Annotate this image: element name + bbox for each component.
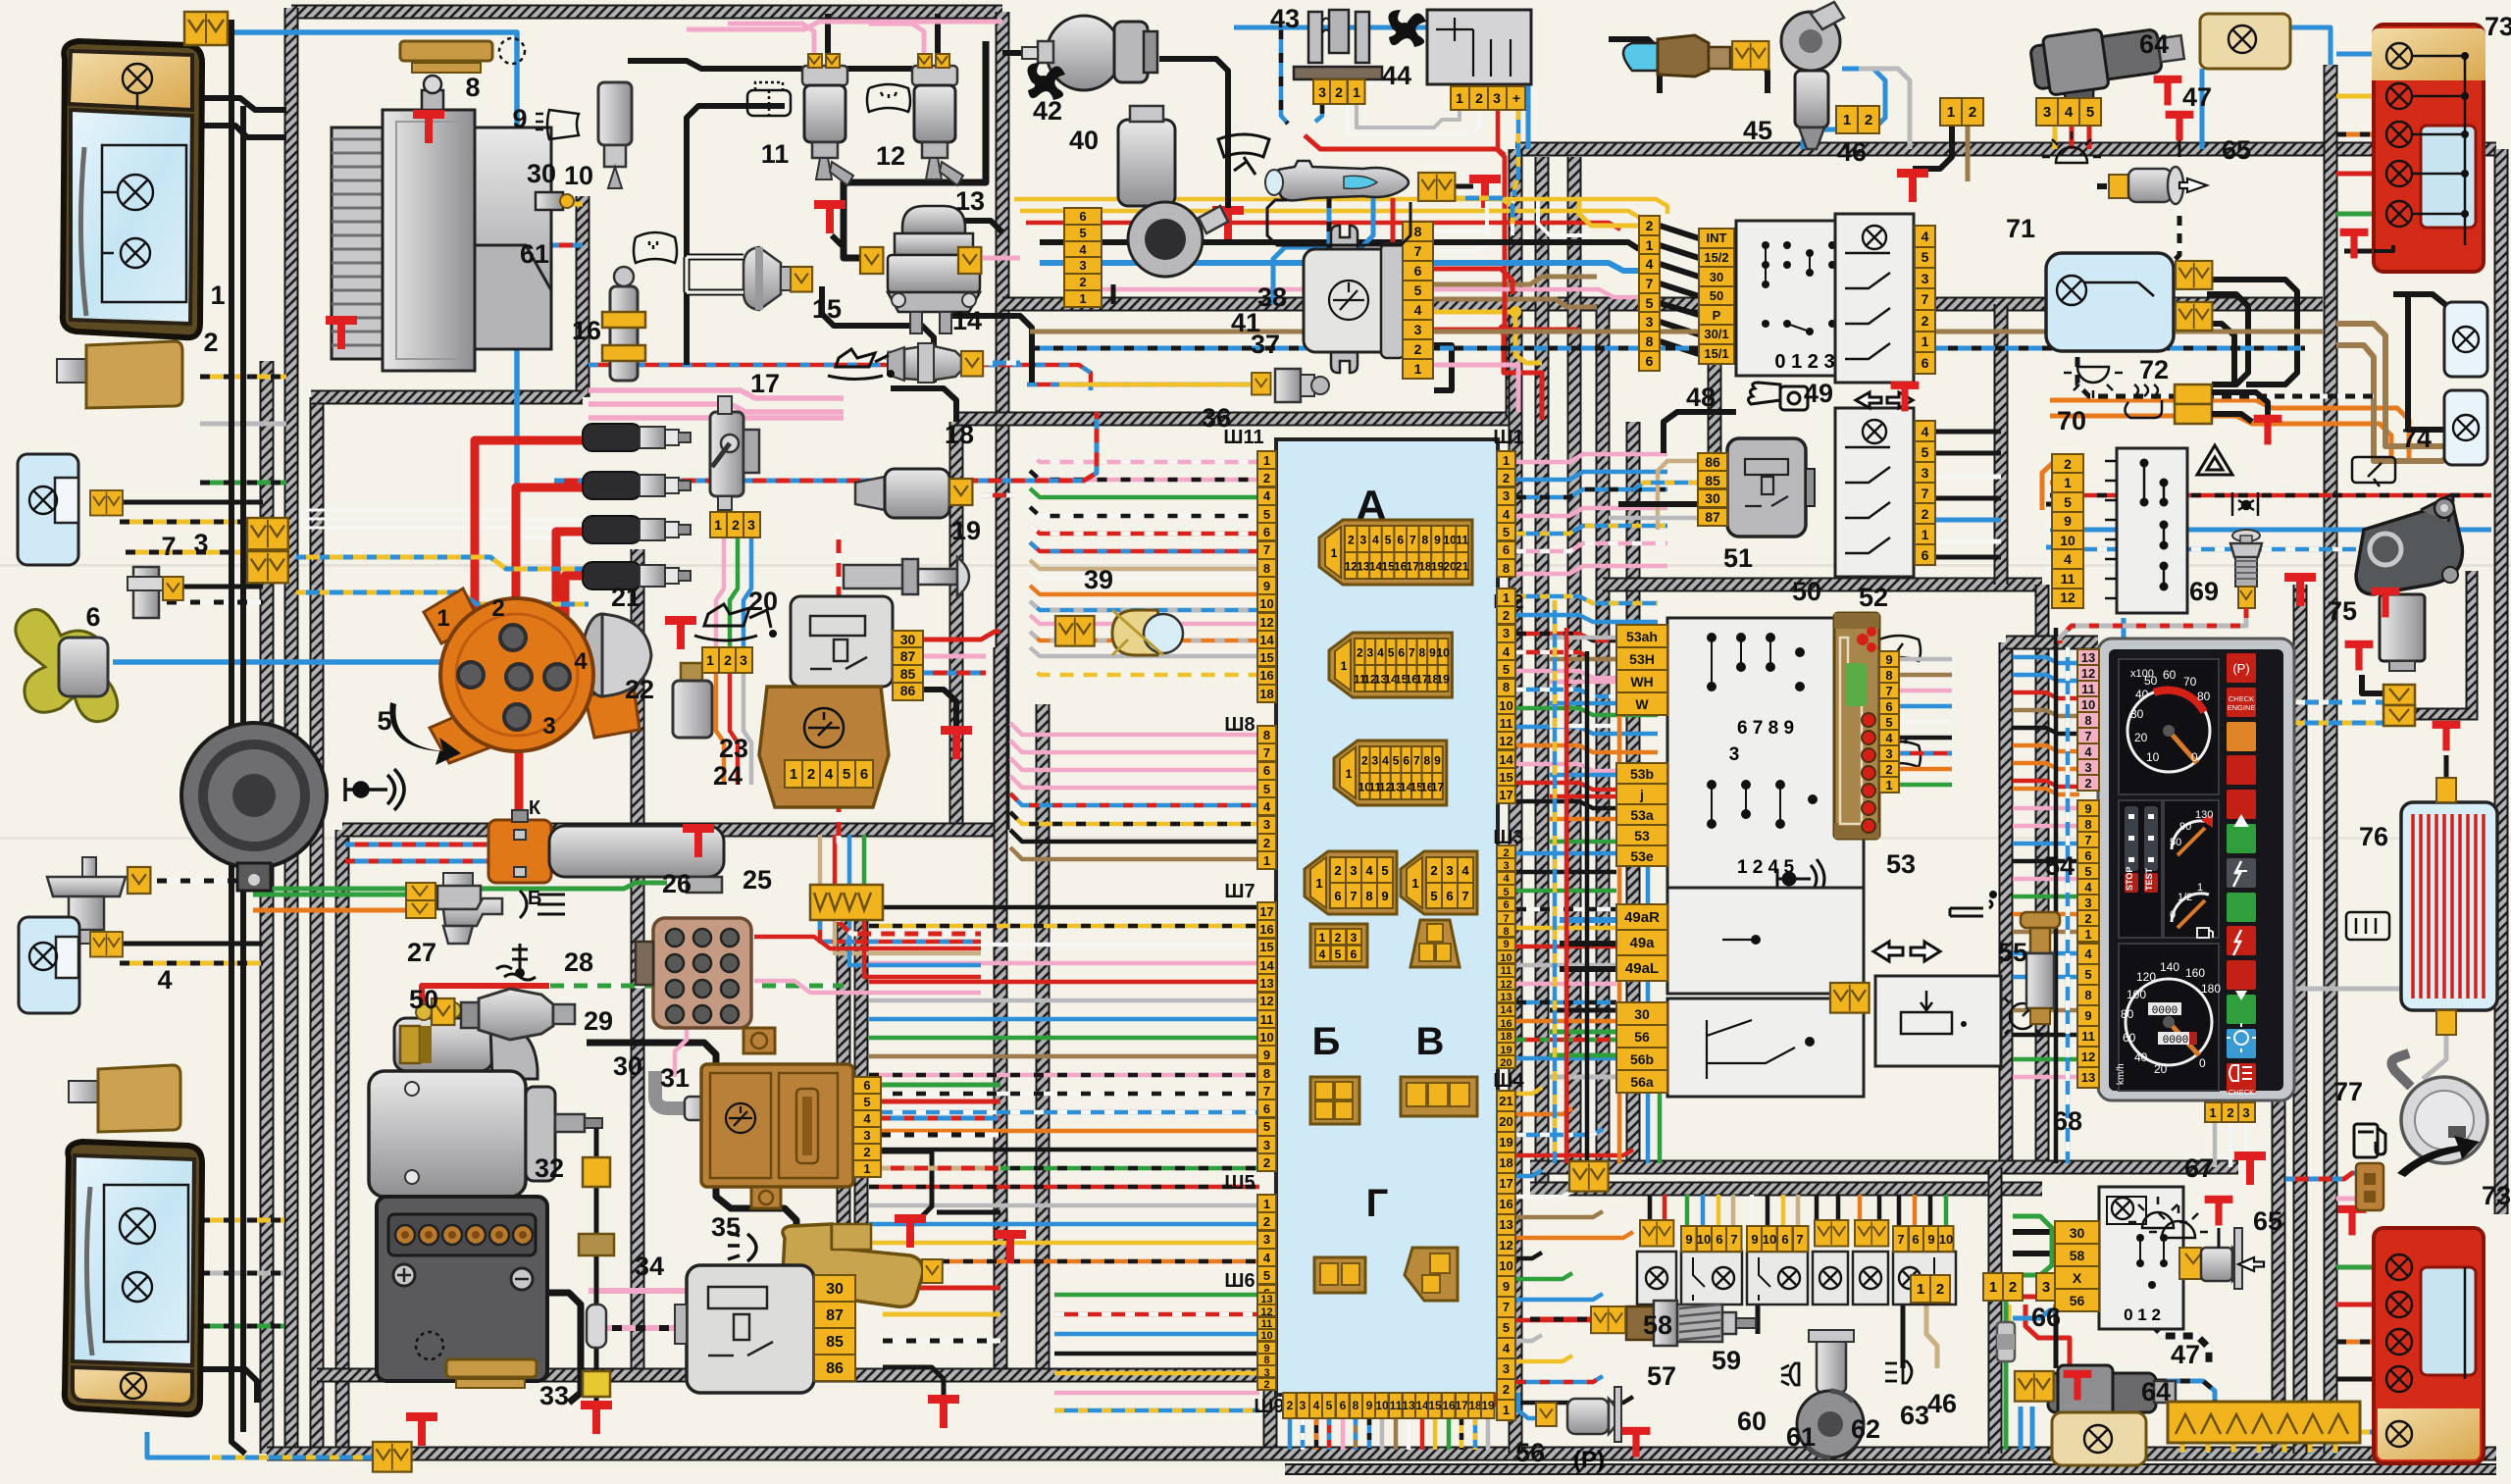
wire — [200, 1218, 284, 1223]
reservoir icon — [747, 82, 791, 116]
wire — [200, 126, 286, 137]
wire — [1936, 451, 2001, 456]
wire — [1913, 126, 1952, 169]
wire — [2013, 789, 2079, 794]
svg-text:4: 4 — [1922, 424, 1929, 439]
connector — [90, 490, 123, 516]
switch 60 — [1747, 1252, 1808, 1305]
wire harness — [956, 412, 1512, 427]
svg-text:Ш9: Ш9 — [1254, 1396, 1284, 1417]
high-tension lead — [556, 532, 583, 674]
wire — [1731, 1195, 1736, 1233]
svg-text:12: 12 — [2081, 1049, 2095, 1064]
svg-text:60: 60 — [2163, 668, 2177, 682]
brake fluid reservoir 35 — [783, 1224, 923, 1306]
wire — [2336, 132, 2374, 137]
ECU connector small — [1310, 924, 1367, 967]
horn 5 — [181, 723, 327, 891]
wire — [728, 24, 814, 54]
ECU connector Г2 — [1405, 1248, 1458, 1301]
brake switch 18 — [855, 469, 949, 518]
wire — [1560, 917, 1616, 923]
svg-text:7: 7 — [1730, 1232, 1737, 1247]
svg-text:4: 4 — [1503, 1341, 1511, 1356]
svg-text:3: 3 — [2084, 896, 2091, 910]
connector — [958, 247, 981, 274]
svg-text:17: 17 — [1259, 904, 1273, 919]
svg-text:2: 2 — [1263, 836, 1270, 850]
ignition coil 26 — [488, 810, 724, 893]
connector 72 — [2175, 384, 2212, 424]
svg-text:3: 3 — [1300, 1399, 1307, 1412]
wire — [1516, 1170, 1542, 1176]
wire — [2013, 877, 2079, 882]
wire — [1054, 1408, 1259, 1413]
svg-text:2: 2 — [1503, 471, 1510, 486]
ground — [2433, 721, 2461, 751]
lamp — [2386, 161, 2412, 186]
sensor 30 — [655, 1071, 714, 1120]
svg-text:52: 52 — [1859, 583, 1888, 612]
svg-text:14: 14 — [1415, 1399, 1429, 1412]
svg-text:2: 2 — [203, 328, 218, 357]
ground — [814, 200, 846, 233]
wire — [1030, 488, 1259, 497]
lamp — [2386, 43, 2412, 69]
wire — [2336, 345, 2452, 461]
svg-text:28: 28 — [564, 947, 593, 977]
svg-text:7: 7 — [1414, 243, 1422, 259]
turn switch block — [1667, 888, 1864, 994]
wire harness — [1603, 578, 2042, 592]
wire — [687, 106, 785, 365]
svg-text:10: 10 — [1260, 1330, 1272, 1342]
wire — [1433, 224, 1515, 231]
windshield icon — [867, 84, 910, 112]
wire — [2004, 1361, 2009, 1450]
svg-text:10: 10 — [1499, 698, 1512, 713]
wire — [869, 1166, 1259, 1171]
svg-text:7: 7 — [1409, 646, 1415, 660]
wire — [1460, 1418, 1464, 1450]
wire — [1002, 50, 1022, 56]
starter motor 29 — [369, 1002, 602, 1197]
battery feed wire — [231, 20, 245, 1454]
svg-text:9: 9 — [1429, 646, 1436, 660]
svg-text:30: 30 — [2130, 707, 2144, 721]
wire — [1530, 1317, 1594, 1322]
wire — [1936, 518, 2001, 523]
wire — [1315, 104, 1322, 122]
wire — [1550, 773, 1616, 778]
lamp — [2084, 1425, 2112, 1453]
svg-text:7: 7 — [1263, 745, 1270, 760]
wire harness — [631, 549, 645, 1375]
svg-text:16: 16 — [1442, 1399, 1456, 1412]
connector pins — [1497, 451, 1515, 577]
turn arrows icon — [1856, 392, 1913, 408]
connector pins — [1403, 222, 1433, 379]
svg-text:7: 7 — [1409, 534, 1416, 547]
connector pins — [1747, 1226, 1809, 1252]
wire — [1936, 539, 2001, 544]
wire harness — [2293, 585, 2308, 1454]
connector pins — [2055, 1221, 2099, 1311]
ECU connector Г1 — [1314, 1257, 1365, 1293]
rear window defogger 76 — [2401, 802, 2497, 1010]
oil level sensor 15 — [687, 247, 791, 310]
svg-text:76: 76 — [2359, 822, 2388, 851]
svg-text:1: 1 — [436, 605, 449, 632]
connector pins — [893, 631, 923, 700]
wire — [1516, 907, 1616, 912]
svg-text:2: 2 — [1503, 1382, 1510, 1397]
svg-text:4: 4 — [1365, 863, 1373, 878]
temperature icon — [496, 944, 536, 980]
front fog icon — [1781, 1363, 1799, 1385]
wire harness — [1708, 304, 1722, 453]
wire — [869, 998, 1259, 1003]
svg-text:74: 74 — [2402, 424, 2432, 453]
wire harness — [335, 830, 350, 1454]
wire — [1030, 346, 2305, 351]
wire — [2308, 1443, 2313, 1454]
lamp — [121, 1373, 146, 1399]
wire — [891, 388, 956, 422]
svg-text:71: 71 — [2006, 214, 2035, 243]
wire — [2013, 1272, 2055, 1278]
wire — [2212, 414, 2252, 422]
svg-text:4: 4 — [1503, 507, 1511, 522]
sensor 45 — [1623, 35, 1730, 77]
wire — [1618, 501, 1698, 507]
svg-text:(P): (P) — [2232, 661, 2249, 676]
svg-text:18: 18 — [945, 420, 974, 449]
washer valve 16 — [602, 267, 645, 381]
key icon — [1748, 383, 1808, 410]
svg-text:4: 4 — [2084, 880, 2092, 895]
wire — [1712, 59, 1768, 93]
wire — [1486, 1418, 1491, 1450]
svg-text:3: 3 — [1503, 488, 1510, 503]
wire — [1514, 110, 1518, 196]
wire — [1054, 1312, 1259, 1317]
wire — [304, 519, 589, 529]
washer pump 11 — [802, 54, 853, 185]
svg-text:58: 58 — [1643, 1310, 1672, 1340]
wire — [1516, 1253, 1542, 1258]
wire — [1327, 1418, 1332, 1450]
wire — [1550, 680, 1616, 685]
wire — [2013, 763, 2079, 769]
wire — [1054, 1391, 1259, 1396]
svg-text:34: 34 — [635, 1252, 664, 1281]
wire — [1030, 507, 1259, 516]
ground — [895, 1214, 926, 1248]
connector — [922, 1259, 943, 1283]
wire — [1900, 720, 1952, 725]
svg-text:5: 5 — [1503, 1320, 1510, 1335]
svg-text:1: 1 — [1922, 527, 1929, 542]
wire — [862, 835, 867, 885]
wire — [869, 1036, 1259, 1041]
wire — [675, 1006, 687, 1077]
ground — [2340, 229, 2369, 259]
svg-text:120: 120 — [2136, 970, 2156, 984]
connector pins — [702, 647, 752, 673]
svg-text:1: 1 — [1263, 853, 1270, 868]
turn arrows icon — [1873, 942, 1940, 961]
high-tension lead — [475, 440, 583, 671]
svg-text:W: W — [1635, 696, 1649, 712]
fuse 66 — [1997, 1322, 2015, 1361]
wire — [1516, 851, 1616, 856]
svg-text:4: 4 — [2065, 104, 2074, 121]
wire — [1632, 483, 1698, 490]
connector — [90, 932, 123, 957]
svg-text:10: 10 — [1259, 596, 1273, 611]
svg-text:2: 2 — [1263, 1155, 1270, 1170]
svg-text:1/2: 1/2 — [2178, 892, 2192, 903]
svg-text:13: 13 — [1259, 976, 1273, 991]
high-tension lead — [520, 576, 583, 717]
wire — [1111, 284, 1116, 304]
svg-text:5: 5 — [1263, 782, 1270, 796]
lamp — [118, 175, 153, 210]
svg-text:3: 3 — [1350, 863, 1357, 878]
svg-text:6: 6 — [1263, 525, 1270, 539]
wire — [1516, 1038, 1616, 1043]
wire — [1357, 104, 1460, 128]
wire — [883, 1367, 944, 1401]
svg-text:4: 4 — [863, 1111, 871, 1126]
wire — [2050, 493, 2491, 498]
wire — [1900, 673, 1952, 678]
wire — [923, 632, 1000, 640]
wire — [1288, 1418, 1293, 1450]
svg-text:18: 18 — [1499, 1155, 1512, 1170]
svg-text:7: 7 — [1897, 1232, 1904, 1247]
svg-text:5: 5 — [1503, 525, 1510, 539]
wire — [2133, 1381, 2215, 1412]
svg-text:10: 10 — [564, 161, 593, 190]
svg-text:4: 4 — [1079, 242, 1087, 257]
connector — [247, 518, 288, 549]
wire — [2336, 52, 2374, 57]
svg-text:9: 9 — [2084, 801, 2091, 816]
wire — [296, 557, 589, 569]
svg-text:2: 2 — [1969, 104, 1976, 121]
connector pins — [853, 1077, 881, 1177]
wire — [2336, 1377, 2374, 1382]
connector — [184, 12, 228, 45]
svg-text:10: 10 — [1375, 1399, 1389, 1412]
wire harness — [1535, 157, 1550, 1189]
wire — [869, 1054, 1259, 1059]
wire — [1030, 632, 1259, 640]
wire — [1010, 847, 1259, 859]
svg-text:58: 58 — [2070, 1248, 2085, 1263]
dimmer icon — [2005, 998, 2040, 1034]
wire — [1516, 526, 1667, 534]
svg-text:1: 1 — [1646, 237, 1654, 253]
wire — [923, 671, 986, 676]
svg-text:3: 3 — [1372, 754, 1379, 768]
defogger connector — [2436, 1010, 2456, 1035]
connector pins — [1257, 1195, 1276, 1303]
fuse link 33 — [579, 1128, 614, 1403]
connector pins — [1497, 1091, 1515, 1420]
ECU connector A3 — [1334, 741, 1447, 805]
connector — [949, 479, 972, 505]
high-tension lead — [515, 685, 524, 822]
wire — [589, 415, 844, 421]
svg-text:3: 3 — [863, 1128, 870, 1143]
svg-text:5: 5 — [1079, 226, 1086, 240]
wire — [847, 835, 852, 885]
svg-text:Ш7: Ш7 — [1224, 881, 1255, 902]
licence plate lamp 74 — [2444, 302, 2487, 377]
svg-text:49aR: 49aR — [1624, 909, 1660, 926]
connector — [1418, 173, 1455, 201]
wire — [1900, 657, 1952, 662]
wire — [304, 528, 589, 537]
switch 62 — [1853, 1252, 1888, 1305]
wire — [2423, 1034, 2446, 1079]
wire — [1010, 812, 1259, 824]
svg-text:2: 2 — [2084, 911, 2091, 926]
svg-text:180: 180 — [2201, 982, 2221, 996]
interior lamp 64 — [2200, 14, 2290, 69]
wire — [1301, 1418, 1306, 1450]
wire — [983, 256, 1020, 261]
svg-text:10: 10 — [1939, 1232, 1953, 1247]
wire — [1717, 1195, 1721, 1233]
svg-text:5: 5 — [1646, 295, 1654, 311]
rear fog icon — [1885, 1361, 1912, 1383]
wire — [1447, 1418, 1452, 1450]
wire harness — [1994, 304, 2009, 585]
wire — [1516, 508, 1667, 516]
side repeater 3 — [19, 917, 79, 1013]
lamp — [2057, 276, 2086, 305]
wire — [1858, 1195, 1863, 1233]
wire — [937, 286, 1032, 383]
wire — [2004, 1275, 2009, 1322]
svg-text:4: 4 — [1646, 256, 1654, 272]
wire — [2019, 1407, 2024, 1450]
wire — [2333, 1443, 2338, 1454]
wire — [1928, 1195, 1933, 1233]
svg-text:8: 8 — [2084, 817, 2091, 832]
svg-text:Ш6: Ш6 — [1224, 1270, 1255, 1292]
connector — [406, 883, 436, 918]
wire — [1609, 39, 1660, 93]
voltage regulator 8 — [400, 38, 525, 73]
wire — [1433, 345, 1452, 390]
svg-text:48: 48 — [1686, 383, 1716, 412]
wire — [983, 361, 1020, 366]
svg-text:61: 61 — [520, 239, 549, 269]
wire — [200, 375, 286, 380]
svg-text:65: 65 — [2253, 1206, 2282, 1236]
svg-text:3: 3 — [1503, 860, 1509, 872]
wire — [837, 530, 842, 844]
wire — [839, 889, 981, 934]
connector pins — [1639, 216, 1660, 371]
wire — [162, 585, 263, 589]
hazard relay 49 — [1835, 214, 1914, 383]
svg-text:0000: 0000 — [2152, 1005, 2178, 1017]
wiper motor 40 — [1118, 106, 1228, 277]
wire — [1030, 542, 1259, 551]
svg-text:8: 8 — [1263, 728, 1270, 742]
wire — [1456, 184, 1473, 189]
wire — [2231, 1443, 2236, 1454]
wire — [1633, 1301, 1687, 1334]
wire — [2013, 1057, 2079, 1062]
svg-text:5: 5 — [1430, 889, 1437, 903]
connector — [1569, 1161, 1609, 1192]
svg-text:9: 9 — [1685, 1232, 1692, 1247]
svg-text:6: 6 — [1340, 1399, 1347, 1412]
svg-text:1: 1 — [1885, 778, 1892, 793]
svg-text:30: 30 — [527, 159, 556, 188]
svg-text:56: 56 — [1634, 1029, 1650, 1045]
svg-text:12: 12 — [1499, 1238, 1512, 1253]
svg-text:80: 80 — [2121, 1007, 2134, 1021]
wire — [1796, 1195, 1801, 1233]
svg-text:2: 2 — [1361, 754, 1368, 768]
heater control 44 — [1427, 10, 1531, 84]
wire — [1030, 560, 1259, 569]
wire — [1900, 736, 1952, 741]
svg-text:73: 73 — [2482, 1181, 2511, 1210]
connector pins — [2036, 1273, 2095, 1301]
wire — [2374, 245, 2393, 251]
wire — [825, 14, 831, 54]
svg-text:6: 6 — [85, 602, 100, 632]
wire — [832, 235, 844, 247]
wire — [2013, 824, 2079, 829]
wire — [1913, 1195, 1918, 1233]
wire — [1054, 1332, 1259, 1337]
svg-text:4: 4 — [2064, 551, 2072, 567]
wire — [1585, 651, 1590, 1163]
svg-text:4: 4 — [1503, 873, 1510, 885]
connector strip — [810, 885, 883, 920]
svg-text:4: 4 — [2084, 744, 2092, 759]
svg-text:12: 12 — [2081, 666, 2095, 681]
courtesy switch 65 — [2109, 128, 2207, 204]
svg-text:30: 30 — [900, 632, 916, 647]
svg-text:5: 5 — [1414, 282, 1422, 298]
spark plug 21 — [583, 472, 691, 499]
svg-text:1: 1 — [2084, 927, 2091, 942]
wire — [1040, 242, 1639, 249]
wire — [167, 600, 263, 605]
glovebox lamp 65 — [2179, 1228, 2264, 1289]
spark plug 21 — [583, 562, 691, 589]
wire — [1054, 1371, 1259, 1376]
ignition-light switch 67 — [2099, 1187, 2183, 1329]
wire — [1234, 27, 1528, 149]
svg-text:8: 8 — [1414, 224, 1422, 239]
wire — [1516, 1150, 1633, 1155]
wire harness — [576, 196, 590, 397]
svg-text:1: 1 — [1503, 1403, 1510, 1417]
svg-text:50: 50 — [2170, 837, 2181, 848]
